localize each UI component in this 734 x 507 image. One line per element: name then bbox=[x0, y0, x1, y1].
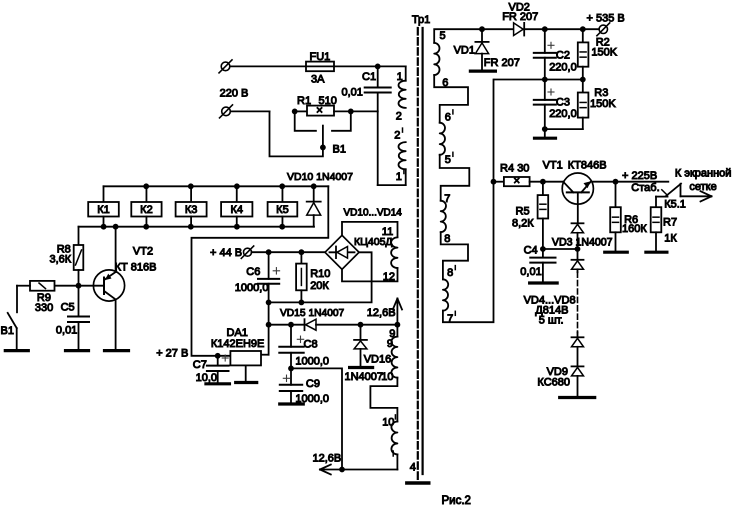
svg-text:К3: К3 bbox=[185, 204, 198, 216]
svg-text:КТ846В: КТ846В bbox=[568, 160, 607, 172]
svg-text:1000,0: 1000,0 bbox=[295, 393, 329, 405]
svg-text:10: 10 bbox=[382, 416, 394, 428]
svg-text:6: 6 bbox=[445, 111, 451, 123]
svg-text:1: 1 bbox=[396, 171, 402, 183]
svg-text:КТ 816В: КТ 816В bbox=[115, 261, 157, 273]
svg-text:220,0: 220,0 bbox=[549, 61, 577, 73]
svg-text:C6: C6 bbox=[246, 266, 260, 278]
svg-text:3А: 3А bbox=[311, 74, 325, 86]
svg-text:C7: C7 bbox=[193, 359, 207, 371]
svg-text:VT1: VT1 bbox=[543, 160, 563, 172]
svg-text:КС680: КС680 bbox=[537, 376, 570, 388]
svg-text:К2: К2 bbox=[140, 204, 153, 216]
svg-text:150K: 150K bbox=[590, 98, 616, 110]
svg-text:VD15: VD15 bbox=[280, 308, 306, 319]
svg-text:R5: R5 bbox=[516, 206, 530, 218]
svg-text:+ 27 В: + 27 В bbox=[156, 348, 188, 360]
svg-text:6: 6 bbox=[442, 77, 448, 89]
svg-text:9: 9 bbox=[387, 338, 393, 350]
svg-text:FR 207: FR 207 bbox=[502, 11, 538, 23]
svg-text:К5: К5 bbox=[276, 204, 289, 216]
svg-text:0,01: 0,01 bbox=[56, 325, 77, 337]
svg-text:7: 7 bbox=[444, 193, 450, 205]
svg-text:30: 30 bbox=[517, 162, 529, 174]
svg-text:5: 5 bbox=[445, 154, 451, 166]
svg-text:2: 2 bbox=[396, 111, 402, 123]
svg-text:510: 510 bbox=[319, 95, 337, 107]
svg-text:5 шт.: 5 шт. bbox=[539, 315, 564, 327]
svg-text:FR 207: FR 207 bbox=[484, 57, 520, 69]
svg-text:К4: К4 bbox=[230, 204, 243, 216]
svg-text:B1: B1 bbox=[333, 144, 346, 156]
svg-text:220,0: 220,0 bbox=[549, 108, 577, 120]
svg-text:К экранной: К экранной bbox=[675, 168, 732, 180]
svg-text:VD10 1N4007: VD10 1N4007 bbox=[287, 171, 353, 183]
svg-text:150K: 150K bbox=[591, 47, 617, 59]
svg-text:VD10...VD14: VD10...VD14 bbox=[344, 208, 403, 219]
svg-text:R4: R4 bbox=[500, 162, 514, 174]
svg-text:R7: R7 bbox=[663, 217, 677, 229]
svg-text:12: 12 bbox=[383, 271, 395, 283]
svg-text:C5: C5 bbox=[61, 302, 75, 314]
svg-text:FU1: FU1 bbox=[310, 51, 331, 63]
svg-text:+ 225В: + 225В bbox=[622, 170, 657, 182]
svg-text:1N4007: 1N4007 bbox=[345, 371, 384, 383]
svg-text:C4: C4 bbox=[524, 244, 538, 256]
svg-text:5: 5 bbox=[440, 30, 446, 42]
svg-text:7: 7 bbox=[447, 313, 453, 325]
svg-text:12,6В: 12,6В bbox=[313, 452, 342, 464]
svg-text:+ 535 В: + 535 В bbox=[587, 13, 625, 25]
svg-text:220 В: 220 В bbox=[220, 87, 249, 99]
svg-text:2: 2 bbox=[394, 130, 400, 142]
svg-text:R10: R10 bbox=[310, 268, 330, 280]
svg-text:C8: C8 bbox=[304, 338, 318, 350]
svg-text:Тр1: Тр1 bbox=[412, 14, 430, 26]
svg-text:R1: R1 bbox=[297, 95, 311, 107]
svg-text:К142ЕН9Е: К142ЕН9Е bbox=[211, 338, 265, 350]
svg-text:8: 8 bbox=[444, 233, 450, 245]
svg-text:20К: 20К bbox=[310, 280, 329, 292]
svg-text:К1: К1 bbox=[97, 204, 110, 216]
svg-text:Стаб.: Стаб. bbox=[631, 182, 659, 194]
svg-text:C3: C3 bbox=[556, 96, 570, 108]
svg-text:VT2: VT2 bbox=[133, 246, 153, 258]
svg-text:+ 44 В: + 44 В bbox=[210, 247, 242, 259]
svg-text:VD3 1N4007: VD3 1N4007 bbox=[552, 236, 613, 248]
svg-text:1К: 1К bbox=[664, 232, 677, 244]
svg-text:К5.1: К5.1 bbox=[664, 198, 686, 210]
svg-text:3,6К: 3,6К bbox=[49, 253, 71, 265]
svg-text:×: × bbox=[513, 176, 520, 188]
svg-text:VD16: VD16 bbox=[364, 353, 392, 365]
svg-text:11: 11 bbox=[382, 226, 393, 238]
svg-text:330: 330 bbox=[35, 302, 53, 314]
svg-text:DA1: DA1 bbox=[227, 327, 248, 339]
svg-text:160К: 160К bbox=[622, 223, 647, 235]
svg-text:1N4007: 1N4007 bbox=[309, 308, 345, 319]
svg-text:C1: C1 bbox=[362, 71, 376, 83]
svg-text:1000,0: 1000,0 bbox=[295, 355, 329, 367]
svg-text:VD1: VD1 bbox=[454, 44, 475, 56]
svg-text:C2: C2 bbox=[556, 50, 570, 62]
svg-text:1000,0: 1000,0 bbox=[235, 282, 269, 294]
svg-text:12,6В: 12,6В bbox=[367, 307, 396, 319]
svg-text:C9: C9 bbox=[306, 378, 320, 390]
svg-text:8: 8 bbox=[447, 267, 453, 279]
svg-text:Рис.2: Рис.2 bbox=[442, 495, 471, 507]
svg-text:10: 10 bbox=[381, 371, 393, 383]
svg-text:1: 1 bbox=[397, 71, 403, 83]
svg-text:8,2К: 8,2К bbox=[512, 218, 534, 230]
svg-text:10,0: 10,0 bbox=[196, 372, 217, 384]
svg-text:B1: B1 bbox=[1, 325, 14, 337]
svg-text:4: 4 bbox=[410, 461, 416, 473]
svg-text:сетке: сетке bbox=[689, 181, 716, 193]
svg-text:0,01: 0,01 bbox=[342, 87, 363, 99]
svg-text:0,01: 0,01 bbox=[520, 266, 541, 278]
